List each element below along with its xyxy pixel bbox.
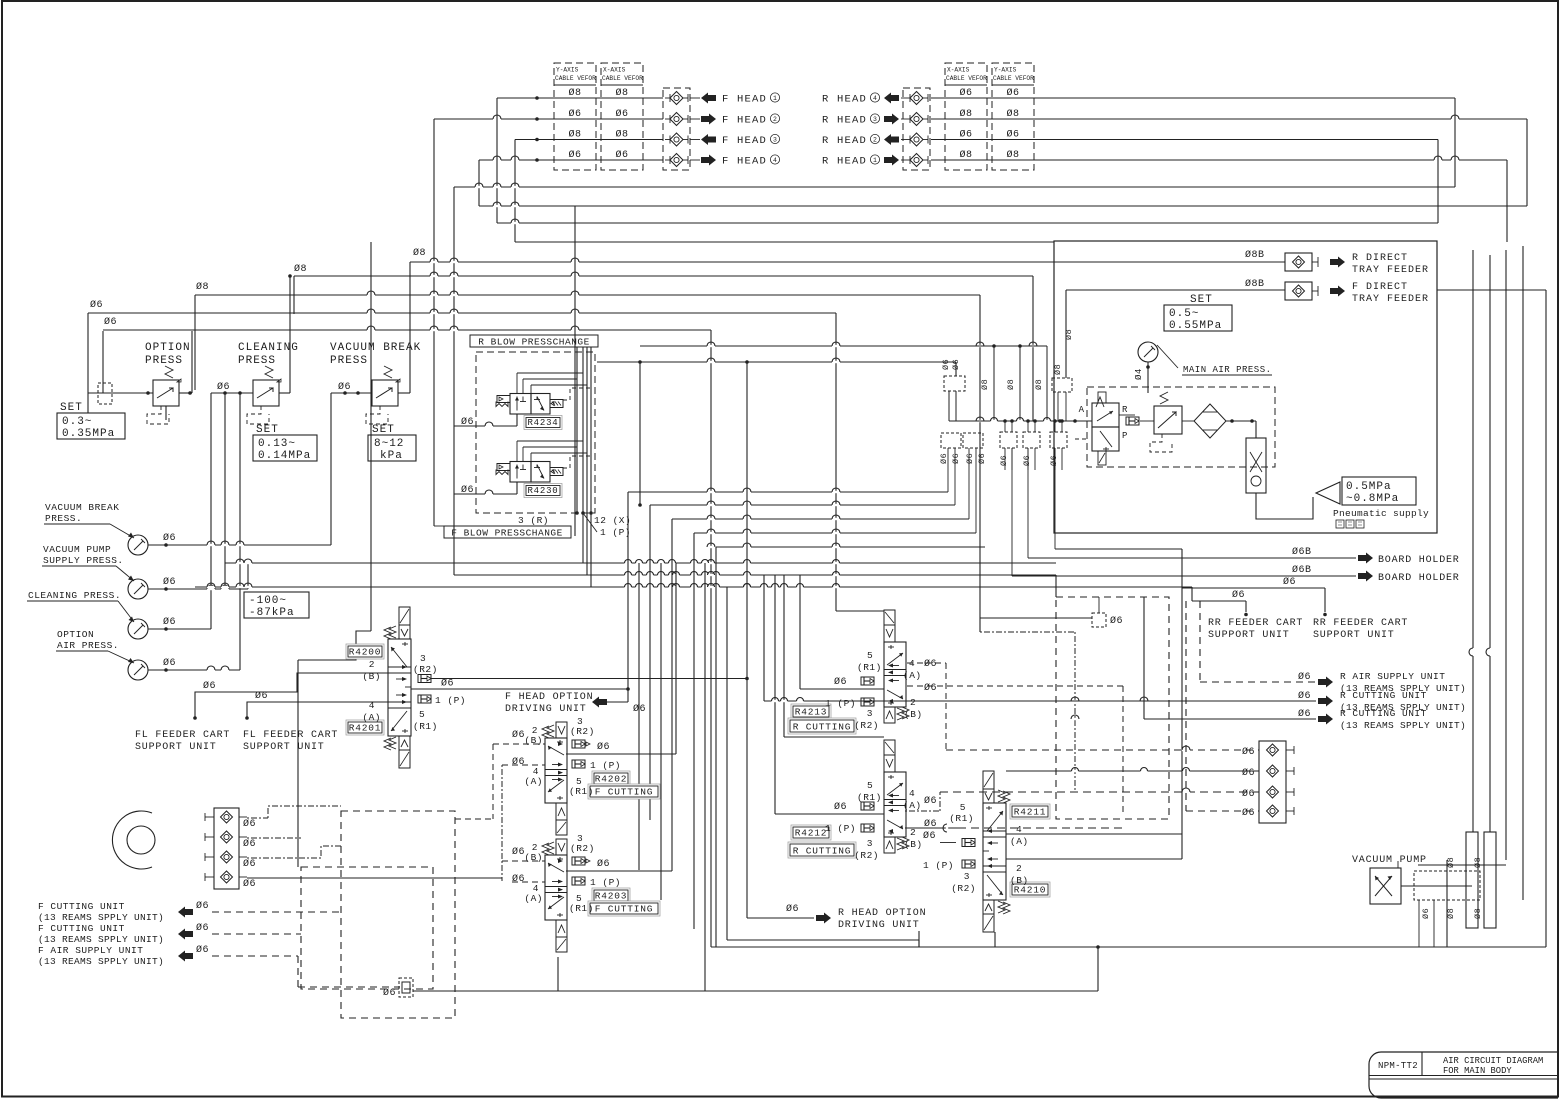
svg-text:DRIVING UNIT: DRIVING UNIT bbox=[505, 704, 587, 715]
svg-text:0.3~: 0.3~ bbox=[62, 416, 92, 428]
svg-text:F HEAD: F HEAD bbox=[722, 135, 767, 147]
svg-text:R4212: R4212 bbox=[795, 828, 828, 839]
svg-text:Ø6: Ø6 bbox=[1006, 87, 1019, 99]
svg-text:Ø6: Ø6 bbox=[999, 455, 1009, 466]
svg-text:F HEAD: F HEAD bbox=[722, 156, 767, 168]
svg-text:Ø6: Ø6 bbox=[977, 453, 987, 464]
svg-text:Ø6: Ø6 bbox=[1022, 455, 1032, 466]
svg-text:4: 4 bbox=[909, 658, 915, 669]
svg-text:1 (P): 1 (P) bbox=[923, 860, 954, 871]
svg-text:PRESS: PRESS bbox=[145, 355, 183, 367]
svg-text:X-AXIS: X-AXIS bbox=[603, 67, 626, 74]
svg-text:SET: SET bbox=[372, 424, 395, 436]
svg-text:1: 1 bbox=[773, 95, 777, 102]
svg-text:0.5~: 0.5~ bbox=[1169, 308, 1199, 320]
svg-text:0.35MPa: 0.35MPa bbox=[62, 428, 115, 440]
svg-text:R HEAD: R HEAD bbox=[822, 94, 867, 106]
svg-text:F AIR SUPPLY UNIT: F AIR SUPPLY UNIT bbox=[38, 945, 143, 956]
svg-text:Ø6: Ø6 bbox=[1049, 455, 1059, 466]
svg-text:Ø6: Ø6 bbox=[512, 873, 525, 885]
svg-text:Ø8: Ø8 bbox=[980, 379, 990, 390]
svg-text:CLEANING PRESS.: CLEANING PRESS. bbox=[28, 590, 121, 601]
svg-text:(A): (A) bbox=[524, 893, 543, 904]
svg-text:Ø6: Ø6 bbox=[568, 108, 581, 120]
svg-text:F BLOW PRESSCHANGE: F BLOW PRESSCHANGE bbox=[451, 528, 563, 539]
svg-text:Ø6: Ø6 bbox=[441, 678, 454, 690]
svg-text:2: 2 bbox=[910, 697, 916, 708]
svg-text:FL FEEDER CART: FL FEEDER CART bbox=[135, 730, 230, 741]
svg-text:Ø6: Ø6 bbox=[923, 830, 936, 842]
svg-text:Ø6: Ø6 bbox=[597, 858, 610, 870]
svg-text:PRESS: PRESS bbox=[238, 355, 276, 367]
svg-text:Ø6: Ø6 bbox=[959, 87, 972, 99]
svg-text:Ø6: Ø6 bbox=[786, 903, 799, 915]
svg-text:Ø8: Ø8 bbox=[1473, 857, 1483, 868]
svg-text:(B): (B) bbox=[1010, 875, 1029, 886]
svg-text:Ø6: Ø6 bbox=[597, 741, 610, 753]
svg-text:5: 5 bbox=[867, 650, 873, 661]
svg-text:AIR CIRCUIT DIAGRAM: AIR CIRCUIT DIAGRAM bbox=[1443, 1056, 1543, 1066]
svg-text:(R2): (R2) bbox=[570, 726, 595, 737]
svg-text:Ø8: Ø8 bbox=[413, 247, 426, 259]
svg-text:Ø6: Ø6 bbox=[951, 453, 961, 464]
svg-text:(R1): (R1) bbox=[569, 903, 594, 914]
svg-text:(13 REAMS SPPLY UNIT): (13 REAMS SPPLY UNIT) bbox=[1340, 720, 1466, 731]
svg-text:(R1): (R1) bbox=[413, 721, 438, 732]
svg-text:1 (P): 1 (P) bbox=[590, 877, 621, 888]
svg-text:R HEAD: R HEAD bbox=[822, 115, 867, 127]
svg-text:Ø6: Ø6 bbox=[1298, 671, 1311, 683]
svg-text:Ø6: Ø6 bbox=[163, 657, 176, 669]
svg-text:Ø6: Ø6 bbox=[90, 299, 103, 311]
svg-text:R: R bbox=[1122, 405, 1128, 415]
svg-text:4: 4 bbox=[873, 95, 877, 102]
svg-text:SUPPORT UNIT: SUPPORT UNIT bbox=[243, 742, 325, 753]
svg-text:R4201: R4201 bbox=[349, 723, 382, 734]
svg-text:Ø6: Ø6 bbox=[615, 108, 628, 120]
svg-text:Ø6: Ø6 bbox=[196, 944, 209, 956]
svg-text:Ø8: Ø8 bbox=[1006, 379, 1016, 390]
svg-text:3: 3 bbox=[420, 653, 426, 664]
svg-text:RR FEEDER CART: RR FEEDER CART bbox=[1313, 618, 1408, 629]
svg-text:F CUTTING UNIT: F CUTTING UNIT bbox=[38, 901, 125, 912]
svg-text:(R2): (R2) bbox=[413, 664, 438, 675]
svg-text:Ø6: Ø6 bbox=[196, 900, 209, 912]
svg-text:Ø8: Ø8 bbox=[959, 149, 972, 161]
svg-text:F HEAD OPTION: F HEAD OPTION bbox=[505, 692, 593, 703]
svg-text:4: 4 bbox=[909, 788, 915, 799]
svg-text:SUPPORT UNIT: SUPPORT UNIT bbox=[135, 742, 217, 753]
svg-text:R4213: R4213 bbox=[795, 707, 828, 718]
svg-text:VACUUM PUMP: VACUUM PUMP bbox=[43, 544, 111, 555]
svg-text:TRAY FEEDER: TRAY FEEDER bbox=[1352, 294, 1429, 305]
svg-text:A: A bbox=[1079, 405, 1085, 415]
svg-text:Ø6: Ø6 bbox=[243, 838, 256, 850]
svg-text:0.13~: 0.13~ bbox=[258, 438, 296, 450]
svg-text:(13 REAMS SPPLY UNIT): (13 REAMS SPPLY UNIT) bbox=[38, 956, 164, 967]
svg-text:Ø6: Ø6 bbox=[924, 658, 937, 670]
svg-text:Ø8: Ø8 bbox=[1053, 364, 1063, 375]
svg-text:Ø6: Ø6 bbox=[243, 858, 256, 870]
svg-text:BOARD HOLDER: BOARD HOLDER bbox=[1378, 573, 1460, 584]
svg-text:2: 2 bbox=[910, 827, 916, 838]
svg-text:PRESS.: PRESS. bbox=[45, 513, 82, 524]
svg-text:Ø6: Ø6 bbox=[196, 922, 209, 934]
svg-text:F CUTTING UNIT: F CUTTING UNIT bbox=[38, 923, 125, 934]
svg-text:(13 REAMS SPPLY UNIT): (13 REAMS SPPLY UNIT) bbox=[38, 912, 164, 923]
svg-text:Ø6: Ø6 bbox=[1242, 767, 1255, 779]
svg-text:CABLE VEFOR: CABLE VEFOR bbox=[993, 75, 1034, 82]
svg-text:kPa: kPa bbox=[380, 450, 403, 462]
svg-text:Ø6: Ø6 bbox=[834, 676, 847, 688]
svg-text:Ø6: Ø6 bbox=[163, 532, 176, 544]
svg-text:AIR PRESS.: AIR PRESS. bbox=[57, 640, 119, 651]
svg-text:R4211: R4211 bbox=[1014, 807, 1047, 818]
svg-text:Ø8: Ø8 bbox=[568, 87, 581, 99]
svg-text:BOARD HOLDER: BOARD HOLDER bbox=[1378, 555, 1460, 566]
svg-text:Ø6: Ø6 bbox=[1242, 746, 1255, 758]
svg-text:F HEAD: F HEAD bbox=[722, 94, 767, 106]
svg-text:X-AXIS: X-AXIS bbox=[947, 67, 970, 74]
svg-text:PRESS: PRESS bbox=[330, 355, 368, 367]
svg-text:4: 4 bbox=[773, 157, 777, 164]
svg-text:TRAY FEEDER: TRAY FEEDER bbox=[1352, 265, 1429, 276]
svg-text:R HEAD: R HEAD bbox=[822, 156, 867, 168]
svg-text:Ø6B: Ø6B bbox=[1292, 564, 1312, 576]
svg-text:(13 REAMS SPPLY UNIT): (13 REAMS SPPLY UNIT) bbox=[38, 934, 164, 945]
svg-text:VACUUM BREAK: VACUUM BREAK bbox=[330, 342, 421, 354]
svg-text:1 (P): 1 (P) bbox=[825, 823, 856, 834]
svg-text:Ø6: Ø6 bbox=[163, 576, 176, 588]
svg-text:SET: SET bbox=[1190, 294, 1213, 306]
svg-text:F HEAD: F HEAD bbox=[722, 115, 767, 127]
svg-text:0.5MPa: 0.5MPa bbox=[1346, 481, 1392, 493]
svg-text:R4202: R4202 bbox=[595, 774, 628, 785]
svg-text:OPTION: OPTION bbox=[145, 342, 191, 354]
svg-text:R4200: R4200 bbox=[349, 647, 382, 658]
svg-text:Ø6: Ø6 bbox=[255, 690, 268, 702]
svg-text:1 (P): 1 (P) bbox=[825, 698, 856, 709]
svg-text:3: 3 bbox=[867, 708, 873, 719]
svg-text:Ø8: Ø8 bbox=[1064, 329, 1074, 340]
svg-text:Ø8: Ø8 bbox=[1006, 149, 1019, 161]
svg-text:Ø6: Ø6 bbox=[939, 453, 949, 464]
svg-text:Ø8: Ø8 bbox=[1473, 908, 1483, 919]
svg-text:R CUTTING UNIT: R CUTTING UNIT bbox=[1340, 690, 1427, 701]
svg-text:Ø6: Ø6 bbox=[217, 381, 230, 393]
svg-text:FL FEEDER CART: FL FEEDER CART bbox=[243, 730, 338, 741]
svg-text:(R2): (R2) bbox=[854, 720, 879, 731]
svg-text:R BLOW PRESSCHANGE: R BLOW PRESSCHANGE bbox=[478, 337, 590, 348]
svg-text:3: 3 bbox=[867, 838, 873, 849]
svg-text:Ø8: Ø8 bbox=[568, 129, 581, 141]
svg-text:Ø6: Ø6 bbox=[1283, 576, 1296, 588]
svg-text:Ø6: Ø6 bbox=[959, 129, 972, 141]
svg-text:Ø6: Ø6 bbox=[633, 703, 646, 715]
svg-text:MAIN AIR PRESS.: MAIN AIR PRESS. bbox=[1183, 365, 1272, 375]
svg-text:SET: SET bbox=[256, 424, 279, 436]
svg-text:F CUTTING: F CUTTING bbox=[595, 904, 654, 915]
svg-text:FOR MAIN BODY: FOR MAIN BODY bbox=[1443, 1066, 1512, 1076]
svg-text:Ø6: Ø6 bbox=[834, 801, 847, 813]
svg-text:SET: SET bbox=[60, 402, 83, 414]
svg-text:Y-AXIS: Y-AXIS bbox=[556, 67, 579, 74]
svg-text:(R2): (R2) bbox=[951, 883, 976, 894]
svg-text:(B): (B) bbox=[904, 709, 923, 720]
svg-text:R4230: R4230 bbox=[527, 486, 558, 496]
svg-text:Ø6: Ø6 bbox=[615, 149, 628, 161]
svg-text:(R1): (R1) bbox=[949, 813, 974, 824]
svg-text:F DIRECT: F DIRECT bbox=[1352, 282, 1408, 293]
svg-text:Ø6: Ø6 bbox=[965, 453, 975, 464]
svg-text:OPTION: OPTION bbox=[57, 629, 94, 640]
svg-text:4: 4 bbox=[1016, 824, 1022, 835]
svg-text:-100~: -100~ bbox=[249, 595, 287, 607]
svg-text:(R1): (R1) bbox=[569, 786, 594, 797]
svg-text:CABLE VEFOR: CABLE VEFOR bbox=[555, 75, 596, 82]
svg-text:(R1): (R1) bbox=[857, 662, 882, 673]
svg-text:RR FEEDER CART: RR FEEDER CART bbox=[1208, 618, 1303, 629]
svg-text:R CUTTING: R CUTTING bbox=[793, 846, 852, 857]
svg-text:Ø6: Ø6 bbox=[512, 846, 525, 858]
svg-text:Ø8B: Ø8B bbox=[1245, 278, 1265, 290]
svg-text:12 (X): 12 (X) bbox=[594, 515, 631, 526]
svg-text:Ø6: Ø6 bbox=[951, 359, 961, 370]
svg-text:Ø6: Ø6 bbox=[1006, 129, 1019, 141]
svg-text:(R2): (R2) bbox=[570, 843, 595, 854]
svg-text:R4234: R4234 bbox=[527, 418, 558, 428]
svg-text:(A): (A) bbox=[362, 712, 381, 723]
svg-text:Ø8B: Ø8B bbox=[1245, 249, 1265, 261]
svg-text:Ø8: Ø8 bbox=[615, 87, 628, 99]
svg-text:Ø8: Ø8 bbox=[1034, 379, 1044, 390]
svg-text:Ø6: Ø6 bbox=[104, 316, 117, 328]
svg-text:NPM-TT2: NPM-TT2 bbox=[1378, 1061, 1418, 1071]
svg-text:R HEAD: R HEAD bbox=[822, 135, 867, 147]
svg-text:Ø8: Ø8 bbox=[959, 108, 972, 120]
svg-text:R AIR SUPPLY UNIT: R AIR SUPPLY UNIT bbox=[1340, 671, 1445, 682]
svg-text:Ø6B: Ø6B bbox=[1292, 546, 1312, 558]
svg-text:DRIVING UNIT: DRIVING UNIT bbox=[838, 920, 920, 931]
svg-text:Ø6: Ø6 bbox=[924, 682, 937, 694]
svg-text:2: 2 bbox=[873, 137, 877, 144]
svg-text:0.55MPa: 0.55MPa bbox=[1169, 320, 1222, 332]
svg-text:Ø6: Ø6 bbox=[512, 729, 525, 741]
svg-text:R HEAD OPTION: R HEAD OPTION bbox=[838, 908, 926, 919]
svg-text:R4210: R4210 bbox=[1014, 885, 1047, 896]
svg-text:5: 5 bbox=[960, 802, 966, 813]
svg-text:(R2): (R2) bbox=[854, 850, 879, 861]
svg-text:Ø6: Ø6 bbox=[338, 381, 351, 393]
svg-text:CABLE VEFOR: CABLE VEFOR bbox=[946, 75, 987, 82]
svg-text:1 (P): 1 (P) bbox=[590, 760, 621, 771]
svg-text:R CUTTING UNIT: R CUTTING UNIT bbox=[1340, 708, 1427, 719]
svg-text:3 (R): 3 (R) bbox=[518, 515, 549, 526]
svg-text:SUPPLY PRESS.: SUPPLY PRESS. bbox=[43, 555, 124, 566]
svg-text:Ø6: Ø6 bbox=[1298, 708, 1311, 720]
svg-text:Ø6: Ø6 bbox=[1421, 908, 1431, 919]
svg-text:R4203: R4203 bbox=[595, 891, 628, 902]
svg-text:Ø8: Ø8 bbox=[615, 129, 628, 141]
svg-text:~0.8MPa: ~0.8MPa bbox=[1346, 493, 1399, 505]
svg-text:Ø6: Ø6 bbox=[1110, 615, 1123, 627]
svg-text:Ø6: Ø6 bbox=[924, 795, 937, 807]
svg-text:Ø6: Ø6 bbox=[1242, 807, 1255, 819]
svg-text:Ø8: Ø8 bbox=[1006, 108, 1019, 120]
svg-text:SUPPORT UNIT: SUPPORT UNIT bbox=[1208, 630, 1290, 641]
svg-text:Ø6: Ø6 bbox=[1242, 788, 1255, 800]
svg-text:Ø6: Ø6 bbox=[568, 149, 581, 161]
svg-text:VACUUM BREAK: VACUUM BREAK bbox=[45, 502, 119, 513]
svg-text:Ø6: Ø6 bbox=[163, 616, 176, 628]
svg-text:Ø6: Ø6 bbox=[243, 878, 256, 890]
svg-text:8~12: 8~12 bbox=[374, 438, 404, 450]
svg-text:Ø6: Ø6 bbox=[1232, 589, 1245, 601]
svg-text:(B): (B) bbox=[904, 839, 923, 850]
svg-text:Ø6: Ø6 bbox=[243, 818, 256, 830]
svg-text:3: 3 bbox=[873, 116, 877, 123]
svg-text:Ø6: Ø6 bbox=[941, 359, 951, 370]
svg-text:2: 2 bbox=[773, 116, 777, 123]
svg-text:Ø6: Ø6 bbox=[203, 680, 216, 692]
svg-text:P: P bbox=[1122, 431, 1127, 441]
svg-text:(A): (A) bbox=[1010, 836, 1029, 847]
svg-text:(A): (A) bbox=[524, 776, 543, 787]
svg-text:F CUTTING: F CUTTING bbox=[595, 787, 654, 798]
svg-text:5: 5 bbox=[419, 709, 425, 720]
svg-text:2: 2 bbox=[369, 659, 375, 670]
svg-text:1 (P): 1 (P) bbox=[600, 527, 631, 538]
svg-text:Ø6: Ø6 bbox=[1298, 690, 1311, 702]
svg-text:(A): (A) bbox=[903, 670, 922, 681]
svg-text:Ø8: Ø8 bbox=[196, 281, 209, 293]
svg-text:2: 2 bbox=[1016, 863, 1022, 874]
svg-text:1 (P): 1 (P) bbox=[435, 695, 466, 706]
svg-text:(A): (A) bbox=[903, 800, 922, 811]
svg-text:1: 1 bbox=[873, 157, 877, 164]
svg-text:SUPPORT UNIT: SUPPORT UNIT bbox=[1313, 630, 1395, 641]
svg-text:VACUUM PUMP: VACUUM PUMP bbox=[1352, 855, 1427, 866]
svg-text:Ø8: Ø8 bbox=[294, 263, 307, 275]
svg-text:3: 3 bbox=[964, 871, 970, 882]
svg-text:0.14MPa: 0.14MPa bbox=[258, 450, 311, 462]
svg-text:R DIRECT: R DIRECT bbox=[1352, 253, 1408, 264]
svg-text:3: 3 bbox=[773, 137, 777, 144]
svg-text:Ø4: Ø4 bbox=[1134, 368, 1144, 380]
svg-text:Pneumatic supply: Pneumatic supply bbox=[1333, 508, 1429, 519]
svg-text:CABLE VEFOR: CABLE VEFOR bbox=[602, 75, 643, 82]
svg-text:R CUTTING: R CUTTING bbox=[793, 722, 852, 733]
svg-text:5: 5 bbox=[867, 780, 873, 791]
svg-text:Ø6: Ø6 bbox=[383, 987, 396, 999]
svg-text:-87kPa: -87kPa bbox=[249, 607, 295, 619]
svg-text:(R1): (R1) bbox=[857, 792, 882, 803]
svg-text:Ø6: Ø6 bbox=[512, 756, 525, 768]
svg-text:Y-AXIS: Y-AXIS bbox=[994, 67, 1017, 74]
